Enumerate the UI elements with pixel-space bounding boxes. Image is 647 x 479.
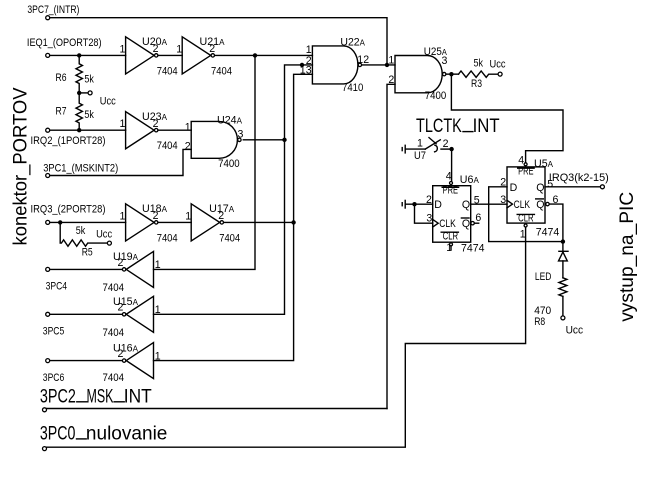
svg-text:3: 3 xyxy=(442,55,448,67)
svg-text:MSK: MSK xyxy=(87,385,114,407)
inverter U21A (7404) xyxy=(182,37,211,74)
svg-text:1: 1 xyxy=(120,43,126,55)
junction U6A D/CLK tie xyxy=(412,202,416,206)
svg-text:R6: R6 xyxy=(56,72,67,84)
node Ucc terminal (R3) xyxy=(498,72,502,76)
svg-text:PRE: PRE xyxy=(443,185,459,197)
bubble U5A Qbar xyxy=(546,202,549,205)
wire terminal to U6A D xyxy=(406,203,433,205)
stub U6A Qbar xyxy=(475,222,479,224)
svg-text:D: D xyxy=(510,182,518,194)
svg-text:1: 1 xyxy=(185,210,191,222)
svg-text:R3: R3 xyxy=(471,78,482,90)
svg-text:INT: INT xyxy=(473,115,500,137)
node IRQ3(k2-15) terminal xyxy=(600,185,604,189)
wire U7 pin 1 xyxy=(406,148,425,150)
svg-text:CLK: CLK xyxy=(514,199,531,211)
bubble U5A CLR xyxy=(524,224,527,227)
wire IRQ2 to U23A xyxy=(50,129,126,131)
wire U15A out to 3PC5 xyxy=(50,313,122,315)
svg-text:1: 1 xyxy=(155,259,161,271)
svg-text:LED: LED xyxy=(535,271,552,283)
svg-text:13: 13 xyxy=(300,65,312,77)
wire U22A out to U25A pin 1 xyxy=(363,64,395,66)
svg-text:Q: Q xyxy=(462,218,470,230)
svg-text:6: 6 xyxy=(475,212,481,224)
svg-text:R5: R5 xyxy=(82,246,93,258)
inverter U17A (7404) xyxy=(191,204,220,241)
svg-text:7410: 7410 xyxy=(342,82,363,94)
svg-text:TLCTK: TLCTK xyxy=(416,115,462,137)
junction on U22A pin 2 wire xyxy=(300,63,304,67)
wire R8 to Ucc xyxy=(562,296,564,315)
junction R7/IRQ2 xyxy=(77,128,81,132)
svg-text:7404: 7404 xyxy=(219,232,240,244)
wire bus U19A input xyxy=(154,55,256,269)
svg-text:7474: 7474 xyxy=(536,227,560,239)
svg-text:3PC7_(INTR): 3PC7_(INTR) xyxy=(27,4,79,16)
svg-text:Q: Q xyxy=(536,182,544,194)
wire 3PC0 to U5A CLR xyxy=(47,227,526,447)
wire U23A out to U24A pin 1 xyxy=(158,129,191,131)
svg-text:Q: Q xyxy=(536,199,544,211)
svg-text:3PC6: 3PC6 xyxy=(43,372,65,384)
bubble U6A CLR xyxy=(450,243,453,246)
junction IRQ3/R5 xyxy=(58,220,62,224)
svg-text:7404: 7404 xyxy=(103,327,125,339)
svg-text:7400: 7400 xyxy=(218,158,240,170)
svg-text:7404: 7404 xyxy=(103,282,125,294)
bubble U5A PRE xyxy=(524,163,527,166)
wire U25A out to U5A PRE xyxy=(451,74,563,162)
svg-text:1: 1 xyxy=(120,118,126,130)
junction U25A out xyxy=(449,72,453,76)
resistor R8 xyxy=(559,278,567,297)
wire U5A D loop xyxy=(489,187,563,242)
svg-text:U5A: U5A xyxy=(534,158,553,170)
svg-text:U6A: U6A xyxy=(460,174,479,186)
diode LED D1 xyxy=(559,250,568,252)
node IRQ3_(2PORT28) terminal xyxy=(46,220,50,224)
svg-text:7404: 7404 xyxy=(157,65,178,77)
connector pin (U6A D) xyxy=(404,200,406,208)
op-amp style inverter U20A (7404) xyxy=(126,37,155,74)
node Ucc terminal (divider) xyxy=(88,91,92,95)
node Ucc terminal (R8) xyxy=(561,316,565,320)
svg-text:2: 2 xyxy=(153,118,159,130)
svg-text:1: 1 xyxy=(185,122,191,134)
svg-text:3PC2: 3PC2 xyxy=(40,385,76,407)
wire U5A Q out xyxy=(545,186,600,188)
svg-text:1: 1 xyxy=(520,229,526,241)
svg-text:R8: R8 xyxy=(534,316,545,328)
wire U25A pin 2 from 3PC2 bus xyxy=(387,84,395,408)
node 3PC1_(MSKINT2) terminal xyxy=(46,174,50,178)
node 3PC4 terminal xyxy=(46,267,50,271)
svg-text:3: 3 xyxy=(238,129,244,141)
svg-text:2: 2 xyxy=(118,302,124,314)
svg-text:PRE: PRE xyxy=(518,166,534,178)
bubble U6A PRE xyxy=(450,182,453,185)
svg-text:2: 2 xyxy=(443,138,449,150)
resistor R7 xyxy=(76,93,82,130)
svg-text:nulovanie: nulovanie xyxy=(86,423,167,445)
svg-text:2: 2 xyxy=(153,43,159,55)
nand gate U22A (7410) xyxy=(312,46,358,84)
node 3PC6 terminal xyxy=(46,359,50,363)
switch U7 arc contact xyxy=(435,145,438,152)
junction U21A out / U19A bus xyxy=(253,53,257,57)
wire junction to diode xyxy=(562,242,564,252)
node Ucc terminal (R5) xyxy=(107,241,111,245)
svg-text:CLK: CLK xyxy=(439,218,456,230)
svg-text:5k: 5k xyxy=(84,109,94,121)
junction U17A out / pin13 bus xyxy=(291,220,295,224)
svg-text:4: 4 xyxy=(446,170,452,182)
svg-text:3PC4: 3PC4 xyxy=(46,280,68,292)
svg-text:3: 3 xyxy=(426,213,432,225)
svg-text:Q: Q xyxy=(462,199,470,211)
wire U20A out to U21A in xyxy=(158,54,182,56)
wire IRQ3 to U18A xyxy=(50,221,126,223)
svg-text:5k: 5k xyxy=(84,74,94,86)
svg-text:IRQ3_(2PORT28): IRQ3_(2PORT28) xyxy=(31,203,106,215)
svg-text:1: 1 xyxy=(446,242,452,254)
wire U6A Q to U5A CLK xyxy=(471,203,507,205)
wire U17A out to bus xyxy=(224,221,294,223)
inverter U23A (7404) xyxy=(126,112,155,149)
svg-text:Ucc: Ucc xyxy=(100,96,116,108)
bubble U6A Qbar xyxy=(471,222,474,225)
svg-text:IEQ1_(OPORT28): IEQ1_(OPORT28) xyxy=(27,37,102,49)
svg-text:1: 1 xyxy=(155,304,161,316)
wire U24A out to bus xyxy=(243,139,284,141)
svg-text:7404: 7404 xyxy=(103,372,125,384)
wire U25A out xyxy=(446,73,458,75)
svg-text:vystup_na_PIC: vystup_na_PIC xyxy=(616,192,638,322)
wire 3PC2 xyxy=(47,408,387,410)
resistor R5 xyxy=(60,222,107,246)
nand gate U24A (7400) xyxy=(191,121,237,158)
wire U24A pin 2 from 3PC1 xyxy=(50,149,191,175)
svg-text:R7: R7 xyxy=(56,106,67,118)
svg-text:2: 2 xyxy=(118,348,124,360)
svg-text:Ucc: Ucc xyxy=(490,59,506,71)
wire 3PC7 to U25A pin 1 xyxy=(50,18,387,65)
svg-text:U22A: U22A xyxy=(340,37,365,49)
svg-text:IRQ3(k2-15): IRQ3(k2-15) xyxy=(549,172,609,184)
svg-text:2: 2 xyxy=(153,210,159,222)
switch U7 cross mark xyxy=(429,138,436,144)
svg-text:INT: INT xyxy=(124,385,152,407)
svg-text:3PC5: 3PC5 xyxy=(43,325,65,337)
nand gate U25A (7400) xyxy=(395,56,442,93)
junction Qbar/D-loop/diode xyxy=(561,239,565,243)
inverter U18A (7404) xyxy=(126,204,155,241)
svg-text:1: 1 xyxy=(176,43,182,55)
svg-text:1: 1 xyxy=(155,350,161,362)
flip-flop U6A (7474) body xyxy=(433,186,471,243)
junction IEQ1/R6 xyxy=(77,53,81,57)
wire U22A pin 2 bus xyxy=(154,65,313,314)
svg-text:Ucc: Ucc xyxy=(566,325,584,337)
svg-text:konektor_PORTOV: konektor_PORTOV xyxy=(10,88,32,246)
node 3PC0 terminal xyxy=(43,447,47,451)
node 3PC2 terminal xyxy=(43,408,47,412)
svg-text:3PC0: 3PC0 xyxy=(40,423,76,445)
svg-text:7404: 7404 xyxy=(211,65,232,77)
switch U7 pin connector xyxy=(404,145,406,153)
junction U7 pin 2 xyxy=(449,147,453,151)
wire D to CLK tie xyxy=(415,204,433,223)
svg-text:7400: 7400 xyxy=(425,90,447,102)
svg-text:U24A: U24A xyxy=(217,115,242,127)
svg-text:5k: 5k xyxy=(76,225,86,237)
junction U24A out / pin2 bus xyxy=(282,138,286,142)
node 3PC7_(INTR) terminal xyxy=(46,16,50,20)
wire U19A out to 3PC4 xyxy=(50,268,122,270)
svg-text:Ucc: Ucc xyxy=(96,228,112,240)
switch U7 blade xyxy=(425,140,440,149)
svg-text:D: D xyxy=(434,199,442,211)
svg-text:3PC1_(MSKINT2): 3PC1_(MSKINT2) xyxy=(43,163,118,175)
stub U6A CLR pin 1 xyxy=(450,246,452,249)
svg-text:1: 1 xyxy=(120,210,126,222)
svg-text:1: 1 xyxy=(388,55,394,67)
wire U22A pin 13 bus xyxy=(154,74,313,360)
svg-text:U7: U7 xyxy=(414,150,426,162)
clock mark U6A xyxy=(433,219,439,227)
wire diode to R8 xyxy=(562,261,564,278)
junction R6/R7/Ucc tap xyxy=(77,91,81,95)
svg-text:2: 2 xyxy=(185,140,191,152)
flip-flop U5A (7474) body xyxy=(507,167,545,223)
svg-text:7474: 7474 xyxy=(461,242,485,254)
resistor R6 xyxy=(76,55,82,93)
wire U21A out to U22A pin 1 xyxy=(215,54,313,56)
svg-text:IRQ2_(1PORT28): IRQ2_(1PORT28) xyxy=(31,135,106,147)
inverter U16A (7404, left pointing) xyxy=(126,343,153,379)
node IRQ2_(1PORT28) terminal xyxy=(46,128,50,132)
wire U18A out to U17A xyxy=(158,221,191,223)
wire Ucc tap xyxy=(79,92,88,94)
inverter U19A (7404, left pointing) xyxy=(126,251,153,287)
wire U16A out to 3PC6 xyxy=(50,360,122,362)
svg-text:1: 1 xyxy=(417,137,423,149)
junction U22A out / 3PC7 xyxy=(385,63,389,67)
wire IEQ1 to U20A input xyxy=(50,54,126,56)
wire U7 to U6A PRE xyxy=(451,149,453,181)
wire U5A Qbar to LED junction xyxy=(549,204,563,242)
svg-text:2: 2 xyxy=(209,43,215,55)
svg-text:7404: 7404 xyxy=(157,232,178,244)
svg-text:2: 2 xyxy=(218,210,224,222)
svg-text:3: 3 xyxy=(500,194,506,206)
node 3PC5 terminal xyxy=(46,312,50,316)
node IEQ1_(0PORT28) terminal xyxy=(46,53,50,57)
svg-text:2: 2 xyxy=(118,257,124,269)
wire U7 pin 2 xyxy=(441,148,452,150)
inverter U15A (7404, left pointing) xyxy=(126,296,153,332)
resistor R3 xyxy=(459,71,498,77)
svg-text:5k: 5k xyxy=(474,58,484,70)
clock mark U5A xyxy=(507,200,513,208)
svg-text:7404: 7404 xyxy=(157,140,178,152)
